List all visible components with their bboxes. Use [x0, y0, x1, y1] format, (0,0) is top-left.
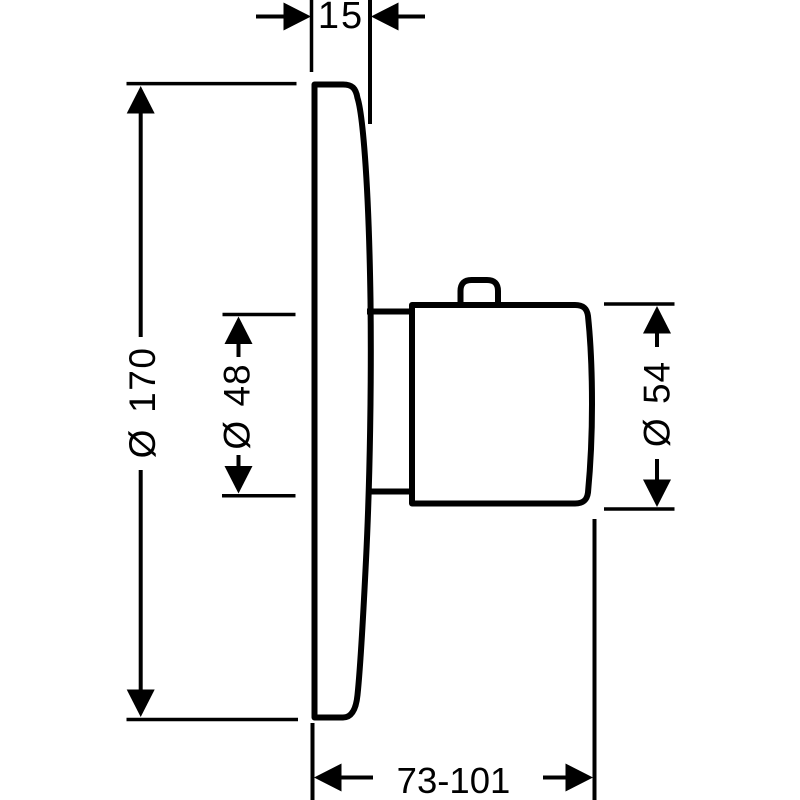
- svg-text:Ø 170: Ø 170: [122, 347, 163, 459]
- dim Ø170: bottom arrowhead: [127, 690, 155, 718]
- svg-text:15: 15: [318, 0, 364, 37]
- dim Ø170: lower dimension line segment: [139, 470, 143, 692]
- dim Ø48: bottom extension line: [222, 494, 296, 498]
- dim 15: left arrow tail: [256, 15, 285, 19]
- dim Ø48: bottom tail: [237, 455, 241, 467]
- dim Ø170: top extension line: [127, 82, 297, 86]
- dim Ø54: bottom tail: [655, 459, 659, 481]
- dim Ø48: top tail: [237, 343, 241, 357]
- safety stop knob on handle top: [461, 280, 499, 304]
- dim Ø170: top arrowhead: [127, 86, 155, 114]
- dim 73-101: right arrowhead: [566, 764, 594, 792]
- svg-text:Ø 54: Ø 54: [637, 361, 678, 447]
- dim Ø54: bottom arrowhead: [643, 480, 671, 508]
- dim 73-101: left extension line: [311, 723, 315, 800]
- dim 73-101: left tail: [340, 776, 373, 780]
- dim Ø54: bottom extension line: [604, 507, 675, 511]
- dim Ø48: top arrowhead: [225, 317, 253, 345]
- dim 73-101: left arrowhead: [314, 764, 342, 792]
- dim 15: right arrow tail: [399, 15, 426, 19]
- dim 73-101: right extension line: [593, 519, 597, 800]
- svg-text:73-101: 73-101: [397, 760, 511, 800]
- sleeve top line: [367, 309, 412, 315]
- dim Ø48: top extension line: [223, 313, 296, 317]
- dim Ø54: top arrowhead: [643, 306, 671, 334]
- dim Ø54: top extension line: [604, 302, 675, 306]
- dim 15: right extension line: [368, 0, 372, 124]
- dim Ø170: upper dimension line segment: [139, 112, 143, 337]
- thermostat handle (side view): [412, 305, 592, 504]
- dim Ø170: bottom extension line: [127, 718, 299, 722]
- svg-text:Ø 48: Ø 48: [217, 363, 258, 449]
- dim Ø54: top tail: [655, 333, 659, 348]
- wall plate (escutcheon, side view): [315, 85, 371, 718]
- dim 15: left extension line: [310, 0, 314, 72]
- dim Ø48: bottom arrowhead: [225, 466, 253, 494]
- dim 15: left arrowhead: [284, 3, 312, 31]
- sleeve bottom line: [367, 489, 412, 495]
- dim 15: right arrowhead: [371, 3, 399, 31]
- dim 73-101: right tail: [543, 776, 567, 780]
